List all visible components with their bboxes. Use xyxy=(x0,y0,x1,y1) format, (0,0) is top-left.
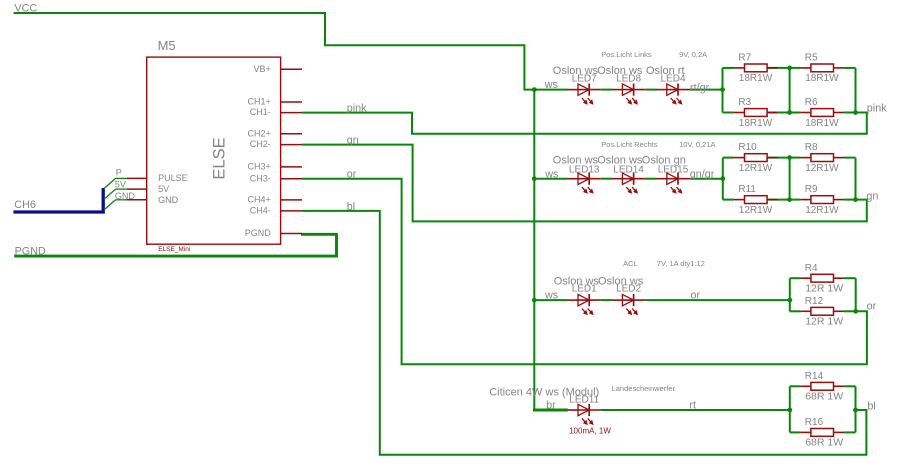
svg-text:CH4-: CH4- xyxy=(250,206,271,216)
svg-text:R3: R3 xyxy=(738,97,751,108)
svg-text:gn/gr: gn/gr xyxy=(690,169,715,181)
svg-text:R6: R6 xyxy=(805,97,818,108)
svg-text:ELSE_Mini: ELSE_Mini xyxy=(158,246,190,253)
svg-text:or: or xyxy=(691,290,701,302)
svg-text:ws: ws xyxy=(544,168,559,180)
svg-text:CH1-: CH1- xyxy=(250,107,271,117)
svg-text:pink: pink xyxy=(347,103,367,115)
svg-text:VCC: VCC xyxy=(14,3,37,15)
svg-text:Oslon ws: Oslon ws xyxy=(598,275,644,287)
svg-text:R14: R14 xyxy=(805,371,824,382)
svg-text:12R 1W: 12R 1W xyxy=(805,283,843,295)
svg-text:P: P xyxy=(116,168,122,178)
svg-text:12R1W: 12R1W xyxy=(805,205,839,216)
svg-text:VB+: VB+ xyxy=(254,64,271,74)
svg-text:R12: R12 xyxy=(805,296,824,307)
svg-text:GND: GND xyxy=(158,195,179,205)
svg-text:GND: GND xyxy=(115,191,135,201)
svg-text:CH2-: CH2- xyxy=(250,139,271,149)
svg-text:CH3+: CH3+ xyxy=(248,162,271,172)
svg-text:9V, 0,2A: 9V, 0,2A xyxy=(679,50,707,59)
svg-text:Pos.Licht Links: Pos.Licht Links xyxy=(601,50,652,59)
svg-text:Oslon ws: Oslon ws xyxy=(553,154,599,166)
svg-text:18R1W: 18R1W xyxy=(739,118,773,129)
svg-text:Landescheinwerfer: Landescheinwerfer xyxy=(612,384,676,393)
svg-text:68R 1W: 68R 1W xyxy=(805,391,843,403)
svg-text:R7: R7 xyxy=(738,53,751,64)
svg-text:PULSE: PULSE xyxy=(158,173,188,183)
svg-text:100mA, 1W: 100mA, 1W xyxy=(569,426,611,435)
svg-text:R4: R4 xyxy=(805,263,818,274)
svg-text:gn: gn xyxy=(866,191,878,203)
svg-text:7V, 1A dty1:12: 7V, 1A dty1:12 xyxy=(657,259,705,268)
svg-text:18R1W: 18R1W xyxy=(805,118,839,129)
svg-text:br: br xyxy=(546,400,556,412)
svg-text:R8: R8 xyxy=(805,142,818,153)
svg-text:Oslon rt: Oslon rt xyxy=(646,65,685,77)
svg-text:12R 1W: 12R 1W xyxy=(805,316,843,328)
svg-text:R5: R5 xyxy=(805,53,818,64)
svg-text:Pos.Licht Rechts: Pos.Licht Rechts xyxy=(601,140,658,149)
svg-text:rt/gr: rt/gr xyxy=(690,82,710,94)
svg-text:12R1W: 12R1W xyxy=(739,163,773,174)
svg-text:pink: pink xyxy=(867,103,887,115)
svg-text:bl: bl xyxy=(867,400,875,412)
svg-text:18R1W: 18R1W xyxy=(739,73,773,84)
svg-text:Oslon ws: Oslon ws xyxy=(553,65,599,77)
svg-text:CH4+: CH4+ xyxy=(248,195,271,205)
svg-text:ws: ws xyxy=(544,79,559,91)
svg-text:gn: gn xyxy=(347,135,359,147)
svg-text:Oslon ws: Oslon ws xyxy=(597,65,643,77)
svg-text:CH6: CH6 xyxy=(14,199,36,211)
svg-text:rt: rt xyxy=(689,400,696,412)
svg-text:R11: R11 xyxy=(738,184,756,195)
svg-text:M5: M5 xyxy=(158,38,176,53)
svg-text:Oslon ws: Oslon ws xyxy=(554,275,600,287)
svg-text:or: or xyxy=(867,301,877,313)
svg-text:PGND: PGND xyxy=(245,228,272,238)
svg-text:5V: 5V xyxy=(158,184,169,194)
svg-text:ws: ws xyxy=(544,290,559,302)
svg-text:bl: bl xyxy=(347,201,355,213)
svg-text:or: or xyxy=(347,169,357,181)
svg-text:18R1W: 18R1W xyxy=(805,73,839,84)
svg-text:Oslon ws: Oslon ws xyxy=(597,154,643,166)
svg-text:Citicen 4W ws (Modul): Citicen 4W ws (Modul) xyxy=(489,387,599,399)
svg-text:CH3-: CH3- xyxy=(250,173,271,183)
svg-text:R16: R16 xyxy=(805,417,824,428)
svg-text:CH1+: CH1+ xyxy=(248,97,271,107)
svg-text:12R1W: 12R1W xyxy=(805,163,839,174)
svg-text:ACL: ACL xyxy=(623,259,638,268)
svg-text:R10: R10 xyxy=(738,142,757,153)
svg-text:Oslon gn: Oslon gn xyxy=(642,154,686,166)
svg-text:5V: 5V xyxy=(115,179,126,189)
svg-text:68R 1W: 68R 1W xyxy=(805,437,843,449)
svg-text:CH2+: CH2+ xyxy=(248,128,271,138)
svg-text:PGND: PGND xyxy=(15,245,46,257)
svg-text:ELSE: ELSE xyxy=(210,137,228,179)
svg-text:R9: R9 xyxy=(805,184,818,195)
svg-text:10V, 0,21A: 10V, 0,21A xyxy=(679,140,715,149)
svg-text:12R1W: 12R1W xyxy=(739,205,773,216)
